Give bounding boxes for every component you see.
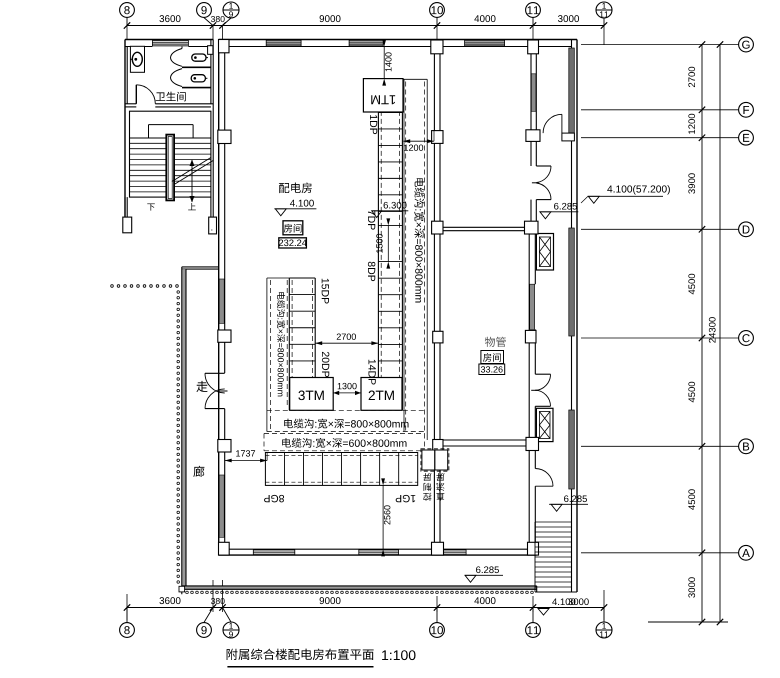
label corridor zou — [196, 381, 207, 392]
corridor outer wall top cap — [182, 266, 219, 268]
vestibule wall window — [531, 74, 536, 112]
axis bubble 8 bottom — [120, 623, 135, 638]
washbasin counter — [130, 46, 144, 72]
dim 1300 — [333, 392, 361, 394]
level 4.100 (57.200) — [607, 185, 670, 194]
left trench rungs — [289, 277, 315, 279]
stair center rail — [166, 135, 174, 201]
wuguan north wall — [443, 226, 529, 228]
fire box 1 — [536, 234, 553, 271]
south wall window 3 — [432, 550, 467, 555]
top wall window 3 — [465, 40, 505, 46]
dim 1737 — [225, 460, 267, 462]
label 14DP — [369, 360, 376, 385]
axis bubble 1/9 bottom — [223, 622, 239, 638]
right trench label — [414, 178, 424, 302]
squat toilet 2 — [191, 75, 205, 82]
west wall window 2 — [219, 475, 224, 537]
level 6.285 east top — [554, 203, 577, 210]
wuguan south wall — [440, 439, 529, 441]
label 20DP — [322, 352, 329, 377]
right dimension texts — [688, 67, 695, 87]
left trench text strip — [266, 278, 268, 432]
axis bubble 9 bottom — [197, 623, 212, 638]
room tag box — [283, 221, 303, 235]
main south wall — [219, 548, 537, 550]
outdoor stair — [534, 522, 536, 592]
axis bubble 1/11 top — [596, 2, 612, 18]
label 8GP — [264, 495, 284, 502]
top dimension texts — [159, 15, 180, 22]
right trench rungs upper — [378, 112, 402, 114]
south wall window 1 — [253, 550, 294, 555]
main east wall — [571, 40, 573, 593]
axis bubble G right — [581, 44, 738, 46]
east wall shutter 2 — [569, 228, 575, 336]
room label peidianfang — [279, 183, 312, 194]
site dotted line horizontal — [111, 285, 114, 288]
vestibule double door — [536, 165, 551, 167]
toilet stall partition 1 — [182, 66, 211, 68]
axis bubble D right — [581, 228, 738, 230]
label 7DP — [368, 210, 375, 229]
west wall window 1 — [219, 279, 224, 323]
vestibule wall column — [526, 130, 540, 142]
bottom dimension texts — [159, 597, 180, 604]
stair well opening — [149, 124, 194, 126]
axis bubble C right — [581, 337, 738, 339]
bottom trench 600 label — [282, 438, 406, 448]
west wall door leaves and arcs — [205, 372, 225, 374]
axis bubble B right — [581, 445, 738, 447]
fire box 2 — [536, 408, 553, 441]
label 8DP — [368, 262, 375, 281]
wuguan east single door — [535, 469, 553, 487]
level 4.100 main — [290, 200, 314, 207]
left trench label — [277, 292, 285, 396]
south wall window 2 — [359, 550, 399, 555]
toilet top window — [152, 41, 188, 46]
stair enclosure — [130, 111, 211, 197]
axis bubble A right — [581, 552, 738, 554]
toilet stall partition 2 — [182, 87, 211, 89]
transformer 2TM — [361, 378, 402, 411]
washbasin bowl — [132, 52, 142, 66]
site dotted line vertical — [177, 291, 180, 294]
axis bubble 9 top — [197, 3, 212, 18]
bottom dimension line — [127, 607, 604, 609]
right vertical dimension line — [701, 45, 703, 623]
stair treads — [130, 142, 211, 144]
label down — [147, 203, 155, 210]
dim 1500 — [387, 225, 389, 261]
corridor outer wall — [182, 269, 185, 586]
toilet block left wall — [124, 40, 126, 218]
stair break line — [172, 158, 211, 182]
vestibule door jamb — [562, 133, 575, 141]
toilet block top wall — [125, 39, 213, 41]
axis bubble 1/11 bottom — [596, 622, 612, 638]
axis bubble E right — [581, 137, 738, 139]
DC panel boxes — [421, 449, 449, 471]
label kongzhiping — [423, 473, 431, 501]
wuguan east wall window — [530, 284, 535, 329]
squat toilet 1 — [192, 54, 206, 61]
columns — [219, 40, 230, 53]
label corridor lang — [193, 466, 204, 477]
east wall shutter 1 — [569, 48, 575, 133]
top wall window 2 — [349, 40, 383, 46]
level 6.285 south — [476, 566, 499, 573]
transformer 3TM — [290, 378, 334, 411]
title — [227, 649, 374, 660]
label up — [188, 203, 196, 210]
left trench ladder rails — [288, 278, 290, 410]
dim 2560 — [382, 485, 384, 549]
dim 2700 — [315, 342, 378, 344]
dim 1200 — [403, 140, 434, 142]
label weishengjian — [156, 92, 186, 102]
axis bubble 10 bottom — [430, 623, 445, 638]
axis bubble 1/9 top — [223, 2, 239, 18]
east wall shutter 3 — [569, 410, 575, 489]
top wall window 1 — [266, 40, 301, 46]
label wuguan — [485, 337, 506, 347]
axis bubble 11 top — [526, 3, 541, 18]
label wuguan room box — [481, 351, 504, 364]
bottom extension lines — [126, 594, 128, 620]
stair up arrow — [191, 160, 193, 202]
toilet block right wall — [210, 40, 212, 104]
level 6.300 — [384, 202, 407, 209]
stall door 1 — [171, 49, 183, 67]
panel row 8GP-1GP — [265, 453, 417, 486]
axis bubble 10 top — [430, 3, 445, 18]
right overall dimension line — [719, 45, 721, 623]
axis bubble F right — [581, 109, 738, 111]
label zhiliuping — [436, 473, 444, 501]
main west wall — [218, 40, 220, 550]
wuguan east wall — [528, 234, 530, 549]
main top wall — [219, 39, 577, 41]
right trench text strip — [403, 79, 405, 431]
label 1DP — [370, 115, 377, 134]
dim 1400 — [383, 47, 385, 79]
partition wall x437 — [433, 54, 435, 549]
top dimension line — [127, 25, 604, 27]
level 6.285 east bottom — [564, 495, 587, 502]
bottom trench 800 label — [284, 419, 408, 429]
axis bubble 11 bottom — [526, 623, 541, 638]
elevation 4.100 at axis 11 bottom — [552, 598, 575, 605]
right trench ladder rails — [377, 111, 379, 410]
bottom trench 600 — [264, 433, 425, 435]
toilet bottom wall — [125, 103, 136, 105]
axis bubble 8 top — [120, 3, 135, 18]
transformer 1TM — [363, 79, 403, 112]
right trench rungs lower — [378, 261, 402, 263]
bottom trench 800 — [267, 409, 426, 411]
top extension lines — [126, 26, 128, 40]
column toilet NE — [208, 46, 213, 55]
wuguan east double door — [535, 373, 550, 375]
toilet door leaf and arc — [135, 85, 137, 104]
vestibule west wall — [530, 54, 532, 166]
label 1GP — [396, 495, 416, 502]
stair south stubs and columns — [124, 197, 126, 217]
walkway corner post — [179, 586, 185, 592]
stall door 2 — [171, 69, 183, 87]
label 15DP — [322, 279, 329, 304]
corridor bottom walkway — [182, 586, 537, 589]
